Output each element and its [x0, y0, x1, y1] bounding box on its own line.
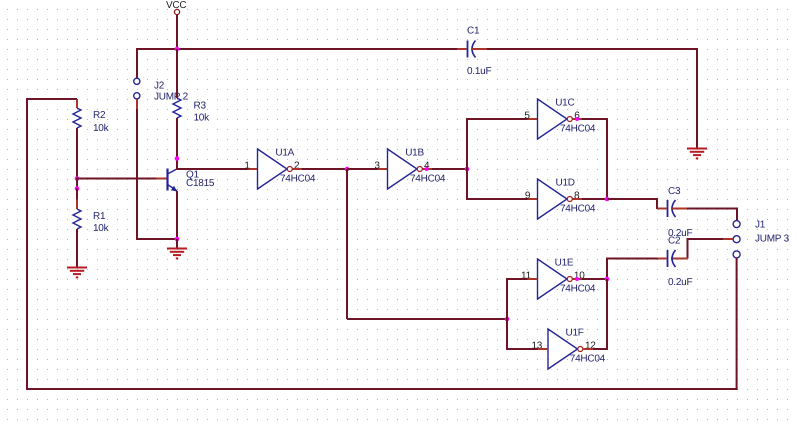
wire VCC rail left	[137, 48, 457, 50]
svg-text:U1B: U1B	[405, 148, 424, 159]
svg-text:74HC04: 74HC04	[560, 284, 596, 295]
svg-text:U1E: U1E	[555, 258, 574, 269]
wire R2 top pin	[76, 99, 78, 108]
wire U1F out riser	[606, 279, 608, 350]
wire C2 step from U1E node	[607, 258, 657, 280]
connector J2 pin 2 circle	[134, 93, 140, 99]
pin dot U1E out	[575, 277, 579, 281]
resistor R3	[173, 98, 181, 118]
wire U1B output pin	[423, 168, 433, 170]
label U1E	[555, 258, 574, 269]
label U1B	[405, 148, 424, 159]
wire C2 right riser	[688, 238, 724, 259]
wire node down to U1D row	[466, 168, 468, 199]
wire node up to U1C row	[466, 118, 468, 170]
label J2	[154, 80, 165, 91]
label U1C	[555, 98, 574, 109]
wire R3 top pin	[176, 49, 178, 58]
svg-text:U1A: U1A	[275, 148, 294, 159]
label R3 value	[194, 113, 211, 124]
wire R2 bottom to base node	[76, 128, 78, 179]
svg-text:JUMP 3: JUMP 3	[755, 233, 790, 244]
svg-text:0.2uF: 0.2uF	[668, 277, 692, 288]
wire base to Q1	[76, 178, 167, 180]
label U1D part 74HC04	[560, 204, 596, 215]
pin number 4	[424, 160, 430, 171]
svg-text:C2: C2	[668, 235, 681, 246]
wire R1 top pin	[76, 189, 78, 210]
wire to U1D input	[466, 198, 538, 200]
junction VCC rail / R3 column	[175, 47, 180, 52]
wire U1D out to node	[582, 198, 607, 200]
ground G1 (right)	[687, 149, 707, 159]
wire C2 left pin	[657, 258, 667, 260]
inverter U1A	[258, 149, 293, 189]
junction U1C/U1D output node	[605, 197, 610, 202]
wire base link	[76, 179, 78, 189]
capacitor C3	[668, 200, 676, 217]
label J1 value JUMP 3	[755, 233, 790, 244]
capacitor C2	[668, 250, 676, 267]
inverter U1F	[548, 329, 583, 369]
pin number 12	[585, 340, 596, 351]
svg-text:C1815: C1815	[186, 178, 215, 189]
pin number 5	[524, 110, 530, 121]
wire node to U1B	[347, 168, 388, 170]
label U1F	[566, 328, 584, 339]
label U1D	[556, 178, 575, 189]
label Q1	[186, 169, 200, 180]
label Q1 value C1815	[186, 178, 215, 189]
wire R3 column upper	[176, 58, 178, 98]
wire VCC stub	[176, 15, 178, 49]
connector J1 pin 2 circle	[733, 236, 740, 243]
svg-text:74HC04: 74HC04	[410, 174, 446, 185]
power port VCC terminal circle	[174, 9, 179, 14]
wire U1F output pin	[584, 348, 594, 350]
wire C3 right pin	[671, 208, 687, 210]
resistor R1	[73, 209, 81, 229]
junction U1B output node	[465, 167, 470, 172]
junction emitter node	[175, 237, 180, 242]
svg-text:U1C: U1C	[555, 98, 574, 109]
label C2	[668, 235, 681, 246]
pin number 2	[294, 160, 300, 171]
wire U1C output pin	[573, 118, 583, 120]
pin number 13	[532, 340, 543, 351]
svg-text:J2: J2	[154, 80, 165, 91]
label R1 value	[93, 223, 110, 234]
pin number 3	[374, 160, 380, 171]
transistor Q1	[168, 169, 178, 192]
wire Q1 collector to U1A	[176, 168, 258, 170]
label C3 value	[668, 228, 692, 239]
svg-text:1: 1	[244, 160, 250, 171]
label U1A	[275, 148, 294, 159]
svg-text:10k: 10k	[93, 123, 110, 134]
wire C2 right pin	[671, 258, 688, 260]
label R1	[93, 211, 106, 222]
svg-text:U1F: U1F	[566, 328, 584, 339]
wire U1A out to node	[302, 168, 347, 170]
label U1A part 74HC04	[280, 174, 316, 185]
svg-text:74HC04: 74HC04	[570, 354, 606, 365]
label R2	[93, 110, 106, 121]
pin dot U1C out	[575, 117, 579, 121]
wire U1E output pin	[573, 278, 583, 280]
connector J1 pin 1 circle	[733, 221, 740, 228]
junction collector node	[175, 156, 180, 161]
wire VCC rail to J2	[136, 48, 138, 78]
wire J2 down column	[136, 109, 138, 240]
inverter U1B	[388, 149, 423, 189]
ground G2 (below R1)	[67, 268, 87, 278]
svg-text:74HC04: 74HC04	[560, 124, 596, 135]
wire C3 to J1 pin1	[687, 209, 738, 221]
wire U1A node down	[346, 169, 348, 319]
label U1B part 74HC04	[410, 174, 446, 185]
wire J1 pin2 stub	[723, 238, 733, 240]
svg-text:5: 5	[524, 110, 530, 121]
svg-text:74HC04: 74HC04	[560, 204, 596, 215]
wire J2 pin2 stub	[136, 99, 138, 109]
svg-text:U1D: U1D	[556, 178, 575, 189]
svg-text:3: 3	[374, 160, 380, 171]
junction U1A output node	[345, 167, 350, 172]
inverter U1E	[538, 259, 573, 299]
wire node to C3 step	[607, 198, 657, 209]
wire U1E out to node	[582, 278, 607, 280]
connector J2 pin 1 circle	[134, 78, 140, 84]
svg-text:9: 9	[525, 190, 531, 201]
resistor R2	[73, 108, 81, 128]
wire R1 bottom	[76, 229, 78, 267]
label C1	[467, 26, 480, 37]
wire feedback left column	[26, 99, 28, 390]
wire to U1E input	[506, 278, 538, 280]
wire U1F out to riser	[593, 348, 608, 350]
label R2 value	[93, 123, 110, 134]
label J1	[755, 219, 766, 230]
svg-text:10k: 10k	[194, 113, 211, 124]
label C1 value	[467, 66, 491, 77]
label R3	[194, 101, 207, 112]
wire U1D output pin	[573, 198, 583, 200]
label U1F part 74HC04	[570, 354, 606, 365]
label C2 value	[668, 277, 692, 288]
wire C1 left pin	[457, 48, 467, 50]
ground G3 (emitter)	[167, 249, 187, 259]
label C3	[668, 186, 681, 197]
wire emitter down	[176, 191, 178, 240]
wire to U1F input	[506, 348, 548, 350]
wire across to EF column	[347, 318, 507, 320]
svg-text:R2: R2	[93, 110, 106, 121]
wire U1B out to node	[432, 168, 467, 170]
svg-text:R1: R1	[93, 211, 106, 222]
pin number 6	[574, 110, 580, 121]
wire R3 bottom to collector	[176, 118, 178, 169]
wire right drop to ground	[696, 48, 698, 148]
pin number 11	[521, 270, 532, 281]
connector J1 pin 3 circle	[733, 251, 740, 258]
label U1C part 74HC04	[560, 124, 596, 135]
label J2 value JUMP 2	[154, 92, 189, 103]
wire emitter ground stub	[176, 239, 178, 248]
svg-text:JUMP 2: JUMP 2	[154, 92, 189, 103]
wire feedback right column	[736, 258, 738, 390]
wire to U1C input	[466, 118, 538, 120]
wire EF column up to U1E	[506, 279, 508, 319]
inverter U1C	[538, 99, 573, 139]
pin number 9	[525, 190, 531, 201]
junction EF input node	[505, 317, 510, 322]
pin number 8	[574, 190, 580, 201]
capacitor C1	[468, 41, 476, 58]
svg-text:10k: 10k	[93, 223, 110, 234]
wire U1A output pin	[293, 168, 303, 170]
svg-text:J1: J1	[755, 219, 766, 230]
junction U1E/U1F output node	[605, 277, 610, 282]
power port VCC label	[166, 0, 186, 11]
junction R1 top node	[75, 186, 80, 191]
svg-text:0.1uF: 0.1uF	[467, 66, 491, 77]
wire C3 left pin	[657, 208, 667, 210]
svg-text:R3: R3	[194, 101, 207, 112]
pin dot U1B out	[425, 167, 429, 171]
wire C1 right pin	[471, 48, 487, 50]
wire EF column down to U1F	[506, 319, 508, 349]
wire U1C out down	[606, 118, 608, 199]
svg-text:C1: C1	[467, 26, 480, 37]
label U1E part 74HC04	[560, 284, 596, 295]
wire U1C out right	[582, 118, 607, 120]
pin number 10	[574, 270, 585, 281]
wire feedback top corner	[26, 98, 77, 110]
wire J2 to emitter node	[137, 238, 177, 240]
wire VCC rail right	[487, 48, 698, 50]
junction base node	[75, 176, 80, 181]
wire feedback bottom	[27, 388, 738, 390]
inverter U1D	[538, 179, 573, 219]
svg-text:C3: C3	[668, 186, 681, 197]
pin number 1	[244, 160, 250, 171]
svg-text:74HC04: 74HC04	[280, 174, 316, 185]
